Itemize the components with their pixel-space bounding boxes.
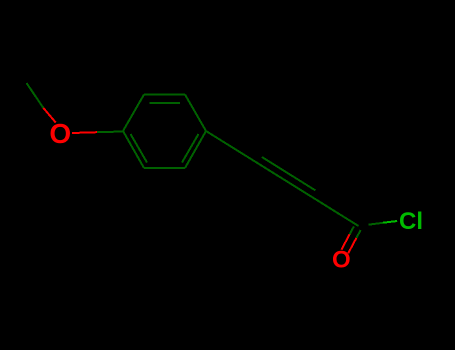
svg-text:O: O <box>49 118 71 149</box>
benzene ring <box>123 95 206 169</box>
svg-text:O: O <box>332 247 351 274</box>
carbonyl C=O double bond <box>341 226 360 253</box>
bond C-Cl <box>368 221 397 225</box>
C=C double bond companion line <box>262 157 316 190</box>
svg-text:Cl: Cl <box>399 208 423 235</box>
inner line of top edge double bond <box>150 102 181 104</box>
bond O to ring left vertex <box>72 132 123 134</box>
inner line of lower-left edge double bond <box>131 134 148 163</box>
chain: ring to carbonyl carbon <box>206 131 359 226</box>
methoxy methyl C-O bond <box>27 83 56 123</box>
inner line of lower-right edge double bond <box>182 134 199 163</box>
